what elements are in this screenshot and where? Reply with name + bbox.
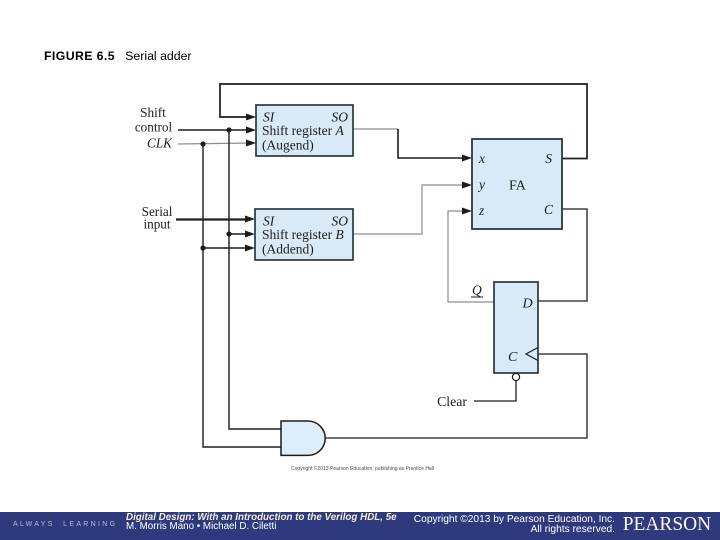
wire: SO of register A to x of FA [353,128,398,130]
footer bar [0,512,720,540]
wire: CLK to register A [178,143,252,144]
D flip-flop box [494,282,538,373]
svg-text:S: S [545,151,552,166]
flip-flop clock edge triangle [526,348,538,361]
svg-text:input: input [143,217,170,232]
arrowhead into x of FA [462,155,472,162]
shift register A box [256,105,353,156]
label: Shift control [135,105,173,135]
wire: serial input into SI of register B [176,218,251,220]
wire: clear to flip-flop bubble [474,381,516,401]
wire: shift-control branch into register B [229,233,251,235]
wire: shift control to register A [178,129,252,131]
full adder FA box [472,139,562,229]
svg-text:C: C [544,202,554,217]
svg-text:Shift register A: Shift register A [262,123,345,138]
svg-text:Shift register B: Shift register B [262,227,344,242]
junction: shift control rail [226,127,231,132]
arrowhead into CLK input of register B [245,245,255,252]
wire: shift-control vertical rail to AND gate top input [229,130,281,429]
wire: CLK vertical rail to AND gate bottom input [203,144,281,447]
underline of Q [471,296,483,298]
junction: CLK at register B [200,245,205,250]
arrowhead into shift input of register B [245,231,255,238]
svg-text:FA: FA [509,179,527,194]
arrowhead into SI of register A [246,114,256,121]
svg-text:(Augend): (Augend) [262,138,314,153]
svg-text:(Addend): (Addend) [262,242,314,257]
wire: Q of flip-flop to z of FA [448,211,494,302]
label: Serial input [142,204,173,232]
arrowhead into SI of register B [245,216,255,223]
junction: CLK rail [200,141,205,146]
junction: shift control at register B [226,231,231,236]
wire: S output feedback loop to SI of register A [220,84,587,159]
figure caption [44,49,192,63]
arrowhead into z of FA [462,208,472,215]
arrowhead into y of FA [462,182,472,189]
svg-text:Q: Q [472,283,482,298]
arrowhead into shift input of register A [246,127,256,134]
svg-text:Shift: Shift [140,105,166,120]
svg-text:Copyright ©2013 Pearson Educat: Copyright ©2013 Pearson Education, publi… [291,465,434,472]
svg-text:control: control [135,120,173,135]
shift register B box [255,209,353,260]
svg-text:x: x [478,151,485,166]
wire: CLK branch into register B [203,247,251,249]
svg-text:z: z [478,203,485,218]
svg-text:Clear: Clear [437,394,467,409]
flip-flop clear bubble [512,373,519,380]
wire: SO of register B to y of FA [353,185,468,234]
arrowhead into CLK input of register A [246,140,256,147]
wire: C output of FA to D input of flip-flop [538,209,587,301]
wire: AND gate output to flip-flop clock [325,354,587,438]
svg-text:y: y [477,177,485,192]
AND gate [281,421,325,455]
svg-text:C: C [508,350,518,365]
svg-text:D: D [522,297,533,312]
svg-text:CLK: CLK [147,136,173,151]
